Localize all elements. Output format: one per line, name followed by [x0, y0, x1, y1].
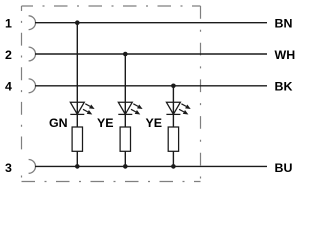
- svg-text:WH: WH: [275, 48, 296, 62]
- svg-text:1: 1: [5, 17, 12, 31]
- svg-text:2: 2: [5, 48, 12, 62]
- svg-text:YE: YE: [97, 116, 114, 130]
- svg-text:BN: BN: [275, 17, 293, 31]
- svg-text:GN: GN: [49, 116, 68, 130]
- svg-text:4: 4: [5, 80, 12, 94]
- svg-text:YE: YE: [146, 116, 163, 130]
- svg-text:BK: BK: [275, 80, 293, 94]
- svg-text:3: 3: [5, 161, 12, 175]
- svg-text:BU: BU: [275, 161, 293, 175]
